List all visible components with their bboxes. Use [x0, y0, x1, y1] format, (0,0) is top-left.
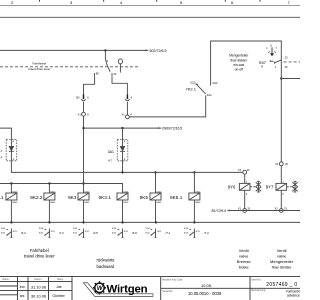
column tick [156, 0, 158, 2]
svg-text:9Y6: 9Y6 [228, 185, 236, 190]
svg-text:advance: advance [287, 294, 300, 298]
svg-text:1(A1+: 1(A1+ [50, 191, 57, 194]
svg-text:/7.2: /7.2 [165, 231, 171, 235]
label Ventil valve Mengenteiler flow divider [270, 248, 294, 270]
junction [280, 77, 282, 79]
wire down to valve 9Y7 [280, 166, 282, 184]
wire coil 9K5 to bottom rail [155, 200, 157, 222]
svg-text:Fahrhebel: Fahrhebel [30, 248, 49, 253]
svg-text:X1: X1 [238, 168, 242, 172]
svg-text:inw.: inw. [20, 285, 26, 289]
wire X1:14 down to valve 9Y6 [244, 174, 246, 183]
svg-text:9K2.1: 9K2.1 [0, 195, 4, 200]
junction [10, 221, 12, 223]
wire reference 0960/72/16.5 [158, 126, 182, 130]
svg-text:valve: valve [239, 254, 249, 259]
relay coil 9K2.1 [0, 191, 19, 204]
travel lever switch blade [105, 59, 110, 72]
svg-text:1(A1+: 1(A1+ [156, 191, 163, 194]
terminal X1:31 (left) [238, 207, 251, 213]
svg-text:Bremse: Bremse [237, 259, 252, 264]
terminal X1:30 [275, 162, 288, 166]
svg-text:travel drive lever: travel drive lever [28, 67, 50, 71]
svg-text:2(A2-: 2(A2- [123, 201, 129, 204]
svg-text:2057469 _ 0: 2057469 _ 0 [266, 282, 297, 288]
switch S57 actuator arrow [268, 47, 276, 56]
svg-text:9K2.2: 9K2.2 [30, 195, 43, 200]
wire [126, 102, 128, 115]
svg-text:1(A1+: 1(A1+ [12, 191, 19, 194]
wire coil 9K2.1 to bottom rail [10, 200, 12, 222]
svg-text:/7.4: /7.4 [203, 231, 209, 235]
suppressor diode module A1 (dashed box) [0, 139, 17, 161]
svg-text:9K5: 9K5 [140, 195, 149, 200]
svg-text:anr.: anr. [20, 294, 26, 298]
switch S57 pivot [274, 62, 276, 64]
svg-text:X1: X1 [78, 112, 82, 116]
svg-text:B1/72/9.6: B1/72/9.6 [211, 209, 226, 213]
svg-text:on-off: on-off [235, 67, 243, 71]
svg-text:valve: valve [277, 254, 287, 259]
wire left branch down [83, 116, 85, 193]
switch 7K2.1 fixed contact tick [195, 83, 198, 85]
junction on second rail [104, 49, 106, 51]
relay coil 9K5 [140, 191, 163, 204]
svg-text:flow divider: flow divider [231, 58, 248, 62]
Wirtgen logo swoosh [84, 283, 154, 297]
wire from left edge into suppressor A1 [0, 128, 11, 139]
terminal X1:31 (right) [275, 207, 288, 213]
wire second supply rail [0, 49, 148, 51]
svg-text:3/14: 3/14 [212, 81, 218, 85]
svg-text:B2: B2 [76, 96, 80, 100]
svg-text:travel drive lever: travel drive lever [24, 254, 55, 259]
wire right branch (forward) [112, 77, 127, 95]
wire [48, 184, 50, 194]
svg-text:Ident-No.:: Ident-No.: [251, 278, 262, 281]
wire top supply rail [0, 16, 300, 18]
svg-text:Name: Name [3, 278, 10, 281]
svg-text:Jae: Jae [56, 285, 62, 289]
svg-text:2(A2-: 2(A2- [195, 201, 201, 204]
junction [10, 182, 12, 184]
solenoid valve 9Y7 [266, 181, 298, 196]
svg-text:brake: brake [239, 265, 250, 270]
terminal X1:4 [122, 113, 133, 119]
wire [193, 172, 195, 193]
terminal 30 [111, 73, 113, 77]
wire brake/flow net bus [11, 161, 242, 173]
switch S57 fixed contact [270, 60, 274, 61]
junction [121, 221, 123, 223]
svg-text:flow divider: flow divider [272, 265, 293, 270]
title block frame [0, 277, 300, 300]
wire left branch (reverse) [84, 77, 95, 95]
terminal X1:14 [238, 168, 250, 174]
svg-text:1(A1+: 1(A1+ [84, 191, 91, 194]
junction [121, 171, 123, 173]
Wirtgen logo gear [93, 281, 106, 294]
column tick [103, 0, 105, 2]
svg-text:/6.8: /6.8 [131, 231, 137, 235]
wire 9Y7 to X1:31 [280, 190, 282, 208]
connector B2 pin 6 [76, 95, 89, 101]
contact cross reference 9K5 [146, 228, 171, 238]
junction [82, 221, 84, 223]
relay coil 9K2.2 [30, 191, 57, 204]
contact cross reference 9K2.2 [39, 228, 64, 238]
wire reverse net horizontal [84, 127, 162, 129]
column tick [259, 0, 261, 2]
svg-text:Serial-No.:: Serial-No.: [162, 290, 174, 293]
junction [121, 127, 123, 129]
svg-text:2(A2-: 2(A2- [12, 201, 18, 204]
suppressor diode module 3A1 (dashed box) [108, 139, 128, 162]
wire down to X1:30 [280, 79, 282, 162]
wire 3A1 bottom to brake net [122, 161, 124, 173]
travel lever actuator stem [119, 64, 121, 73]
svg-text:S57: S57 [259, 60, 267, 65]
svg-text:602/72/6.5: 602/72/6.5 [150, 49, 167, 53]
svg-text:31.10.06: 31.10.06 [31, 285, 46, 290]
contact cross reference 9K5.1 [184, 228, 209, 238]
relay coil 9K3 [68, 191, 91, 204]
svg-text:Günther: Günther [53, 294, 66, 298]
wire coil 9K3 to bottom rail [83, 200, 85, 222]
svg-text:9K3: 9K3 [68, 195, 77, 200]
svg-text:Ventil: Ventil [239, 248, 249, 253]
contact cross reference 9K3 [73, 228, 98, 238]
svg-text:X1: X1 [238, 207, 242, 211]
wire L1 to switch 7K2.1 [129, 95, 205, 117]
svg-text:/3.8: /3.8 [92, 231, 98, 235]
wire [155, 172, 157, 193]
terminal X1:6 [78, 112, 90, 116]
svg-text:Name: Name [57, 278, 64, 281]
switch 7K2.1 blade [197, 84, 206, 93]
switch S57 blade [275, 60, 282, 63]
travel lever actuator knob [118, 59, 122, 64]
svg-text:Fahrhebel: Fahrhebel [33, 62, 47, 66]
junction [82, 127, 84, 129]
wire [10, 184, 12, 194]
wire 9Y6 to X1:31 [244, 190, 246, 208]
svg-text:backward: backward [96, 264, 115, 269]
svg-text:2(A2-: 2(A2- [156, 201, 162, 204]
connector B2 pin 4 [125, 95, 132, 101]
svg-text:7K2.1: 7K2.1 [186, 87, 197, 92]
svg-text:1(A1+: 1(A1+ [195, 191, 202, 194]
svg-text:0960/72/16.5: 0960/72/16.5 [162, 126, 182, 130]
svg-text:Datum: Datum [34, 278, 41, 281]
svg-text:2(A2-: 2(A2- [50, 201, 56, 204]
svg-text:Machine Key Code:: Machine Key Code: [162, 278, 183, 281]
svg-text:9Y7: 9Y7 [266, 185, 274, 190]
frame top line [0, 4, 300, 6]
column tick [39, 0, 41, 2]
svg-text:Wirtgen: Wirtgen [107, 284, 148, 296]
svg-text:X1: X1 [122, 113, 126, 117]
svg-text:2(A2-: 2(A2- [84, 201, 90, 204]
wire to travel lever switch [104, 50, 106, 59]
wire valve return rail [228, 210, 300, 212]
label Ventil valve Bremse brake [237, 248, 252, 270]
contact cross reference 9K2.1 [1, 228, 26, 238]
wire 3A1 top to reverse net [122, 128, 124, 139]
relay coil 9K5.1 [170, 191, 202, 204]
column tick [224, 0, 226, 2]
label Mengenteiler block [229, 54, 249, 72]
junction [48, 182, 50, 184]
wire from 3/14 up and over to S57 [211, 41, 282, 86]
junction [48, 221, 50, 223]
relay coil 9K3.1 [99, 191, 130, 204]
solenoid valve 9Y6 [228, 181, 261, 196]
wire coil 9K3.1 to bottom rail [122, 200, 124, 222]
svg-text:10.05.: 10.05. [201, 283, 212, 288]
svg-text:X1: X1 [275, 162, 279, 166]
wire coil 9K2.2 to bottom rail [48, 200, 50, 222]
svg-text:1(A1+: 1(A1+ [123, 191, 130, 194]
junction [154, 171, 156, 173]
svg-text:10.05.0010 - 0039: 10.05.0010 - 0039 [188, 291, 222, 296]
svg-text:9K3.1: 9K3.1 [99, 195, 112, 200]
svg-text:Mengenteiler: Mengenteiler [229, 54, 249, 58]
junction [193, 171, 195, 173]
svg-text:rückwärts: rückwärts [96, 257, 114, 262]
dashed mechanical link line (Fahrhebel) [0, 66, 139, 68]
svg-text:3A1: 3A1 [108, 150, 114, 154]
svg-text:/4.7: /4.7 [108, 160, 113, 163]
svg-text:30.10.06: 30.10.06 [31, 294, 46, 299]
wire coil 9K5.1 to bottom rail [193, 200, 195, 222]
junction [193, 221, 195, 223]
junction [82, 182, 84, 184]
junction [155, 221, 157, 223]
dashed wire 23/26 [284, 61, 300, 63]
wire [83, 102, 85, 113]
svg-text:X1: X1 [275, 207, 279, 211]
svg-text:Ventil: Ventil [277, 248, 287, 253]
wire bottom return rail [0, 221, 300, 223]
svg-text:5/12: 5/12 [190, 81, 196, 85]
svg-text:4/11: 4/11 [207, 93, 212, 97]
wire reverse relay bus [0, 184, 123, 194]
contact cross reference 9K3.1 [112, 228, 137, 238]
terminal 85 [94, 73, 96, 77]
wire reference 602/72/6.5 [145, 49, 166, 53]
wire reference B1/72/9.6 [211, 209, 229, 213]
wire to right edge [281, 78, 300, 80]
svg-text:/9.4: /9.4 [20, 231, 26, 235]
svg-text:Mengenteiler: Mengenteiler [270, 259, 294, 264]
svg-text:Bezeichnung:: Bezeichnung: [251, 289, 266, 292]
svg-text:/7.3: /7.3 [58, 231, 64, 235]
svg-text:9K5.1: 9K5.1 [170, 195, 183, 200]
